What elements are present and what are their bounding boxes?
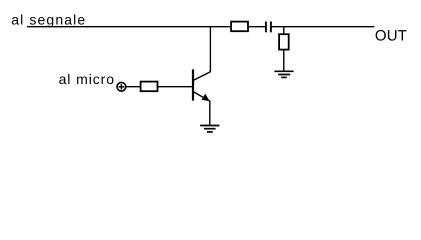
svg-text:OUT: OUT: [375, 27, 407, 44]
svg-text:al segnale: al segnale: [11, 12, 85, 28]
svg-text:al micro: al micro: [59, 71, 115, 87]
